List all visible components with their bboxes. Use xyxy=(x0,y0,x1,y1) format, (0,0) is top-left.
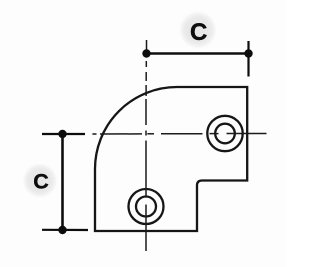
svg-text:C: C xyxy=(33,170,49,194)
svg-text:C: C xyxy=(190,19,207,46)
